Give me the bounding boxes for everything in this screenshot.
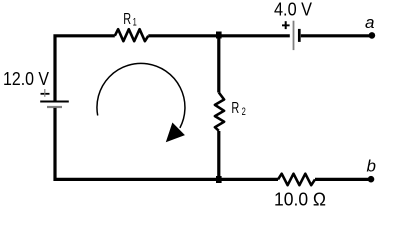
resistor R2 [215,93,224,131]
wire junction to battery 4V [219,34,290,37]
wire battery to terminal a [301,34,372,37]
wire left rail top + top wire to R1 [55,36,115,101]
svg-text:4.0 V: 4.0 V [274,0,312,20]
svg-text:a: a [365,13,374,32]
battery V1 12.0V plus sign [41,89,50,97]
terminal b dot [368,176,375,183]
battery V2 short plate [298,29,301,42]
loop current arrow arc [97,63,185,127]
svg-text:R: R [231,99,239,117]
wire bottom junction to 10 ohm resistor [219,178,278,181]
wire left rail bottom + bottom wire to junction [55,108,219,179]
svg-text:b: b [367,156,376,175]
wire R2 bottom to bottom junction [217,131,220,179]
svg-text:R: R [123,10,131,28]
node junction bottom [216,176,222,183]
loop current arrowhead [166,123,185,143]
R1 value label [123,10,137,28]
terminal a dot [369,32,376,39]
svg-text:1: 1 [133,15,137,28]
wire top junction down to R2 [217,36,220,93]
R2 value label [231,99,245,117]
battery V2 4.0V plus sign [282,21,290,29]
svg-text:10.0 Ω: 10.0 Ω [274,190,326,210]
battery V1 short plate [47,106,62,108]
resistor R1 [115,29,149,41]
wire R1 right to top junction [148,34,219,37]
battery V2 long plate [293,21,295,50]
battery V1 long plate [40,100,69,102]
svg-text:12.0 V: 12.0 V [3,69,49,89]
wire resistor to terminal b [315,178,371,181]
node junction top [216,32,222,39]
resistor 10.0 ohm [278,174,315,186]
svg-text:2: 2 [242,104,246,117]
